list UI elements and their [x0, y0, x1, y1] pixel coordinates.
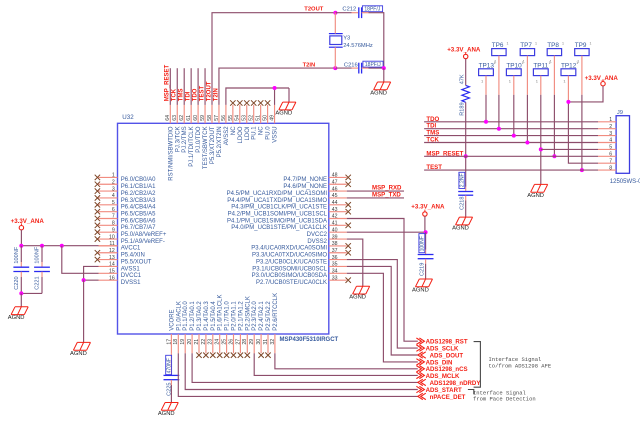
wire Y3 bottom stem — [334, 47, 336, 68]
pin 53 (LDOI) — [242, 100, 251, 140]
svg-text:52: 52 — [249, 115, 255, 121]
wire net TMS from pin 62 up — [183, 68, 185, 105]
svg-text:DVCC1: DVCC1 — [121, 273, 142, 279]
wire T2OUT junction to C212 left plate — [335, 12, 351, 14]
wire net TDO from pin 60 up — [197, 68, 199, 105]
svg-text:AGND: AGND — [452, 226, 469, 232]
svg-text:470NF: 470NF — [167, 358, 173, 373]
svg-text:55: 55 — [228, 115, 234, 121]
wire net ADS1298_nCS from pin 32 — [275, 353, 418, 369]
svg-text:36: 36 — [332, 255, 338, 261]
test point TP12 — [561, 61, 578, 83]
power +3.3V_ANA (TP12/J9) — [585, 75, 619, 86]
pin 46 (P4.5/PM_UCA1RXD/PM_UCA1SOMI) — [227, 186, 347, 197]
pin 52 (PU.1) — [249, 100, 258, 139]
svg-text:47K: 47K — [459, 74, 465, 84]
pin 9 (P5.0/A8/VeREF+) — [95, 227, 167, 238]
svg-text:P5.5/XOUT: P5.5/XOUT — [121, 259, 152, 265]
svg-text:T2IN: T2IN — [303, 62, 316, 68]
ground AGND (TP11 / J9 pin5) — [527, 184, 547, 198]
svg-text:12: 12 — [109, 248, 115, 254]
svg-text:1: 1 — [590, 42, 592, 46]
wire down to AGND — [83, 280, 85, 342]
svg-text:53: 53 — [242, 115, 248, 121]
test point TP9 — [575, 42, 592, 64]
svg-text:C218: C218 — [460, 197, 466, 210]
wire DVSS1 pin 16 left — [84, 279, 99, 281]
svg-text:64: 64 — [165, 115, 171, 121]
svg-text:TP6: TP6 — [492, 42, 504, 49]
pin 50 (PU.0) — [263, 100, 272, 139]
svg-text:P4.3/PM_UCB1CLK/PM_UCA1STE: P4.3/PM_UCB1CLK/PM_UCA1STE — [231, 205, 327, 211]
resistor R189 47K — [462, 85, 470, 102]
svg-text:47: 47 — [332, 179, 338, 185]
svg-text:100NF: 100NF — [35, 246, 41, 263]
svg-text:50: 50 — [263, 115, 269, 121]
pin 24 (P1.6/TA1CLK) — [215, 295, 224, 358]
pin 29 (P2.3/TA2.0) — [249, 301, 258, 354]
svg-text:P1.4/TA0.3: P1.4/TA0.3 — [204, 301, 210, 331]
value 2.2NF (boxed) — [459, 172, 466, 188]
svg-text:P4.2/PM_UCB1SOMI/PM_UCB1SCL: P4.2/PM_UCB1SOMI/PM_UCB1SCL — [228, 211, 328, 217]
net label ADS_START with off-page arrow — [416, 386, 462, 394]
junction VSSU / ground rail — [273, 86, 277, 90]
pin 18 (P1.0/ACLK) — [173, 301, 182, 353]
svg-text:16: 16 — [109, 275, 115, 281]
svg-text:17: 17 — [166, 339, 172, 345]
junction TMS/TP10 — [512, 134, 516, 138]
pin 39 (DVSS2) — [307, 234, 346, 245]
wire net TEST from pin 59 up — [204, 68, 206, 105]
svg-text:P6.2/CB2/A2: P6.2/CB2/A2 — [121, 191, 156, 197]
ground AGND (C219) — [412, 279, 432, 293]
svg-text:TP7: TP7 — [520, 42, 532, 49]
pin 21 (P1.3/TA0.2) — [194, 301, 203, 358]
svg-text:46: 46 — [332, 186, 338, 192]
svg-text:100NF: 100NF — [14, 246, 20, 263]
svg-text:P4.1/PM_UCB1SIMO/PM_UCB1SDA: P4.1/PM_UCB1SIMO/PM_UCB1SDA — [227, 218, 327, 224]
pin 47 (P4.6/PM_NONE) — [283, 179, 351, 190]
svg-text:58: 58 — [207, 115, 213, 121]
svg-text:7: 7 — [609, 158, 612, 164]
svg-text:TP10: TP10 — [506, 62, 522, 69]
junction rail / C221 — [40, 244, 44, 248]
svg-text:7: 7 — [112, 214, 115, 220]
wire net nPACE_DET from pin 18 — [178, 353, 417, 396]
value 18PF/J (boxed) — [363, 61, 383, 68]
wire VSSU pin 49 up to ground rail — [274, 88, 276, 105]
svg-text:LDOI: LDOI — [245, 126, 251, 140]
wire AVSS1 pin 14 left and down — [84, 266, 99, 280]
svg-text:P6.3/CB3/A3: P6.3/CB3/A3 — [121, 198, 156, 204]
wire net T2OUT: pin 58 up and right to crystal — [212, 13, 335, 105]
svg-text:3: 3 — [112, 186, 115, 192]
junction TP9 / TEST — [580, 168, 584, 172]
pin 55 (NC) — [228, 100, 237, 135]
wire TP6 to TDI — [498, 56, 500, 95]
svg-text:TP8: TP8 — [547, 42, 559, 49]
test point TP11 — [533, 61, 550, 83]
svg-text:1: 1 — [507, 42, 509, 46]
test point TP8 — [547, 42, 564, 64]
annotation bracket (pace detection) — [468, 390, 474, 395]
pin 5 (P6.4/CB4/A4) — [95, 200, 156, 211]
svg-text:C225: C225 — [166, 383, 172, 396]
svg-text:51: 51 — [256, 115, 262, 121]
pin 26 (P2.0/TA1.1) — [228, 301, 237, 358]
wire net TDO to J9 pin 1 — [424, 121, 598, 123]
pin 34 (P3.0/UCB0SIMO/UCB0SDA) — [252, 269, 347, 280]
svg-text:P2.6/RTCCLK: P2.6/RTCCLK — [273, 293, 279, 331]
capacitor C212 18PF/J — [359, 7, 362, 18]
svg-text:P6.7/CB7/A7: P6.7/CB7/A7 — [121, 225, 156, 231]
svg-text:2: 2 — [609, 124, 612, 130]
test point TP7 — [520, 42, 537, 64]
wire J9 pin5 row — [541, 148, 598, 150]
pin 38 (P3.4/UCA0RXD/UCA0SOMI) — [251, 241, 351, 252]
pin 7 (P6.6/CB6/A6) — [95, 214, 156, 225]
capacitor C216 18PF/J — [359, 63, 362, 74]
svg-text:+3.3V_ANA: +3.3V_ANA — [411, 204, 445, 211]
svg-text:P6.1/CB1/A1: P6.1/CB1/A1 — [121, 184, 156, 190]
svg-text:1: 1 — [549, 61, 551, 65]
svg-text:PU.0: PU.0 — [266, 126, 272, 140]
wire net MSP_RESET from pin 64 up — [169, 68, 171, 105]
J9 pin 4 — [598, 138, 616, 144]
svg-text:44: 44 — [332, 200, 338, 206]
svg-text:8: 8 — [112, 221, 115, 227]
svg-text:C212: C212 — [342, 6, 356, 12]
svg-text:P1.3/TA0.2: P1.3/TA0.2 — [197, 301, 203, 331]
ground AGND (AVSS1/DVSS1) — [70, 342, 90, 356]
svg-text:P2.3/TA2.0: P2.3/TA2.0 — [252, 301, 258, 331]
wire +3.3V to R189 — [465, 59, 467, 86]
svg-text:P3.0/UCB0SIMO/UCB0SDA: P3.0/UCB0SIMO/UCB0SDA — [252, 273, 327, 279]
pin 19 (P1.1/TA0.0) — [180, 301, 189, 354]
svg-text:P4.0/PM_UCB1STE/PM_UCA1CLK: P4.0/PM_UCB1STE/PM_UCA1CLK — [231, 225, 327, 231]
svg-text:AVCC1: AVCC1 — [121, 246, 141, 252]
net label ADS1298_RST with off-page arrow — [416, 338, 467, 346]
J9 pin 1 — [598, 117, 616, 123]
svg-text:32: 32 — [270, 339, 276, 345]
pin 17 (VCORE) — [166, 309, 175, 353]
svg-text:28: 28 — [242, 339, 248, 345]
svg-text:J9: J9 — [617, 110, 623, 116]
svg-text:1: 1 — [509, 79, 512, 84]
svg-text:P6.0/CB0/A0: P6.0/CB0/A0 — [121, 177, 156, 183]
svg-text:21: 21 — [194, 339, 200, 345]
svg-text:P4.4/PM_UCA1TXD/PM_UCA1SIMO: P4.4/PM_UCA1TXD/PM_UCA1SIMO — [227, 198, 327, 204]
svg-text:P1.5/TA0.4: P1.5/TA0.4 — [211, 301, 217, 331]
svg-text:8: 8 — [609, 165, 612, 171]
svg-text:P3.4/UCA0RXD/UCA0SOMI: P3.4/UCA0RXD/UCA0SOMI — [251, 246, 327, 252]
pin 54 (LDOO) — [235, 100, 244, 143]
svg-text:PU.1: PU.1 — [252, 126, 258, 140]
svg-text:P3.3/UCA0TXD/UCA0SIMO: P3.3/UCA0TXD/UCA0SIMO — [252, 253, 327, 259]
note: Interface Signal from Pace Detection — [473, 390, 536, 403]
wire TP12 to +3.3V and J9 pin 7 — [567, 76, 569, 102]
svg-text:P5.3/XT2OUT: P5.3/XT2OUT — [210, 126, 216, 164]
svg-text:AGND: AGND — [70, 351, 87, 357]
ground AGND (AVSS2/VSSU) — [275, 102, 295, 116]
wire net ADS_DOUT from pin 35 — [347, 266, 418, 355]
junction TP11 / J9 pin5 row — [539, 147, 543, 151]
svg-text:29: 29 — [249, 339, 255, 345]
capacitor C218 2.2NF — [458, 156, 473, 217]
pin 25 (P1.7/TA1.0) — [222, 301, 231, 358]
test point TP10 — [506, 61, 523, 83]
wire DVSS2 pin 39 to ground — [347, 239, 363, 286]
svg-text:5: 5 — [112, 200, 115, 206]
J9 pin 8 — [598, 165, 616, 171]
net label ADS1298_nCS with off-page arrow — [416, 366, 467, 374]
junction AVSS1/DVSS1 — [82, 278, 86, 282]
wire TP10 to TMS — [513, 76, 515, 95]
svg-text:P1.0/ACLK: P1.0/ACLK — [176, 301, 182, 331]
pin 11 (AVCC1) — [98, 241, 141, 252]
svg-text:9: 9 — [112, 227, 115, 233]
pin 16 (DVSS1) — [98, 275, 141, 286]
pin 31 (P2.5/TA2.2) — [263, 301, 272, 358]
J9 pin 3 — [598, 131, 616, 137]
svg-text:MSP_TXD: MSP_TXD — [372, 192, 401, 199]
svg-text:P2.1/TA1.2: P2.1/TA1.2 — [238, 301, 244, 331]
svg-text:+3.3V_ANA: +3.3V_ANA — [585, 75, 619, 82]
svg-text:P6.4/CB4/A4: P6.4/CB4/A4 — [121, 205, 156, 211]
pin 36 (P3.2/UCB0CLK/UCA0STE) — [256, 255, 347, 266]
wire DVCC1 branch to pin 15 — [62, 246, 99, 274]
junction DVCC2 / +3.3V / C219 — [424, 230, 428, 234]
value 470NF (boxed) — [166, 355, 173, 374]
junction T2OUT / Y3 top / C212 — [333, 11, 337, 15]
svg-text:DVCC2: DVCC2 — [307, 232, 328, 238]
wire net MSP_TXD from pin 45 — [347, 197, 404, 199]
svg-text:C216: C216 — [344, 63, 358, 69]
svg-text:+3.3V_ANA: +3.3V_ANA — [11, 218, 45, 225]
wire net ADS_START from pin 19 — [185, 353, 418, 389]
svg-text:P2.4/TA2.1: P2.4/TA2.1 — [259, 301, 265, 331]
pin 61 (PJ.1/TDI/TCLK) — [186, 105, 195, 167]
svg-text:to/from ADS1298 AFE: to/from ADS1298 AFE — [489, 363, 552, 370]
wire net ADS1298_nDRDY from pin 20 — [192, 353, 418, 382]
svg-text:15: 15 — [109, 269, 115, 275]
wire net ADS1298_RST from pin 42 — [347, 219, 418, 342]
svg-text:1: 1 — [536, 79, 539, 84]
svg-text:1: 1 — [535, 42, 537, 46]
wire TP8 to MSP_RESET — [553, 56, 555, 95]
svg-text:TEST: TEST — [426, 164, 442, 171]
svg-text:DVSS2: DVSS2 — [307, 239, 327, 245]
svg-text:12505WS-08: 12505WS-08 — [610, 179, 640, 185]
wire ground rail down to AGND — [288, 88, 290, 102]
svg-text:10: 10 — [109, 234, 115, 240]
pin 51 (NC) — [256, 100, 265, 135]
pin 22 (P1.4/TA0.3) — [201, 301, 210, 358]
pin 41 (P4.0/PM_UCB1STE/PM_UCA1CLK) — [231, 221, 351, 232]
pin 10 (P5.1/A9/VeREF-) — [95, 234, 165, 245]
svg-text:35: 35 — [332, 262, 338, 268]
svg-text:27: 27 — [235, 339, 241, 345]
svg-text:62: 62 — [179, 115, 185, 121]
svg-text:6: 6 — [112, 207, 115, 213]
pin 15 (DVCC1) — [98, 269, 141, 280]
power +3.3V_ANA (DVCC2) — [411, 204, 445, 217]
svg-text:1: 1 — [609, 117, 612, 123]
svg-text:PJ.3/TCK: PJ.3/TCK — [175, 126, 181, 152]
pin 40 (DVCC2) — [307, 227, 347, 238]
svg-text:P5.1/A9/VeREF-: P5.1/A9/VeREF- — [121, 239, 165, 245]
svg-text:LDOO: LDOO — [238, 126, 244, 143]
svg-text:TCK: TCK — [426, 137, 439, 144]
junction T2IN / Y3 bottom / C216 — [333, 66, 337, 70]
wire TP9 to TEST — [581, 56, 583, 95]
wire TP13 to TDO — [485, 76, 487, 95]
svg-text:34: 34 — [332, 269, 338, 275]
net label ADS_SCLK with off-page arrow — [416, 345, 459, 353]
svg-text:P2.5/TA2.2: P2.5/TA2.2 — [266, 301, 272, 331]
svg-text:1: 1 — [576, 61, 578, 65]
junction right rail / C216 — [382, 66, 386, 70]
svg-text:MSP_RESET: MSP_RESET — [426, 150, 463, 157]
value 18PF/J (boxed) — [362, 6, 382, 13]
svg-text:40: 40 — [332, 227, 338, 233]
power +3.3V_ANA (R189) — [447, 47, 481, 59]
svg-text:2.2NF: 2.2NF — [460, 173, 466, 187]
pin 1 (P6.0/CB0/A0) — [95, 173, 156, 184]
capacitor C220 100NF — [13, 246, 29, 294]
note: Interface Signal to/from ADS1298 AFE — [489, 356, 552, 370]
svg-text:P6.5/CB5/A5: P6.5/CB5/A5 — [121, 211, 156, 217]
svg-text:P5.4/XIN: P5.4/XIN — [121, 253, 145, 259]
capacitor C219 100NF — [418, 232, 434, 279]
junction R189 / MSP_RESET / C218 — [464, 154, 468, 158]
wire net MSP_RXD from pin 46 — [347, 190, 404, 192]
svg-text:TP11: TP11 — [533, 62, 548, 69]
svg-text:AVSS1: AVSS1 — [121, 266, 141, 272]
svg-text:RST/NMI/SBWTDIO: RST/NMI/SBWTDIO — [168, 126, 174, 181]
svg-text:Y3: Y3 — [343, 35, 350, 41]
junction rail / C220 — [19, 244, 23, 248]
pin 57 (P5.2/XT2IN) — [214, 105, 223, 158]
svg-text:P6.6/CB6/A6: P6.6/CB6/A6 — [121, 218, 156, 224]
pin 27 (P2.1/TA1.2) — [235, 301, 244, 358]
net label nPACE_DET with off-page arrow — [418, 393, 466, 401]
J9 pin 5 — [598, 145, 616, 151]
ground AGND (C218) — [452, 217, 472, 231]
wire AVSS2 pin 56 up to ground rail — [226, 88, 289, 105]
svg-text:4: 4 — [112, 193, 115, 199]
svg-text:ADS_MCLK: ADS_MCLK — [426, 373, 460, 380]
svg-text:22: 22 — [201, 339, 207, 345]
pin 32 (P2.6/RTCCLK) — [270, 293, 279, 353]
pin 56 (AVSS2) — [221, 105, 230, 145]
svg-text:60: 60 — [193, 115, 199, 121]
pin 23 (P1.5/TA0.4) — [208, 301, 217, 358]
pin 60 (PJ.0/TDO) — [193, 105, 202, 153]
svg-text:31: 31 — [263, 339, 269, 345]
svg-text:6: 6 — [609, 152, 612, 158]
pin 37 (P3.3/UCA0TXD/UCA0SIMO) — [252, 248, 351, 259]
svg-text:P5.2/XT2IN: P5.2/XT2IN — [217, 126, 223, 157]
svg-text:P2.0/TA1.1: P2.0/TA1.1 — [232, 301, 238, 331]
svg-text:P5.0/A8/VeREF+: P5.0/A8/VeREF+ — [121, 232, 167, 238]
svg-text:25: 25 — [222, 339, 228, 345]
svg-text:59: 59 — [200, 115, 206, 121]
junction TP8 / MSP_RESET — [552, 154, 556, 158]
svg-text:57: 57 — [214, 115, 220, 121]
svg-text:18: 18 — [173, 339, 179, 345]
svg-text:ADS1298_nDRDY: ADS1298_nDRDY — [430, 380, 481, 387]
ground AGND (crystal caps) — [370, 82, 390, 96]
net label ADS_DOUT with off-page arrow — [418, 352, 464, 360]
wire +3.3V_ANA stem to DVCC2 rail — [424, 216, 426, 232]
wire net TDI to J9 pin 2 — [424, 128, 598, 130]
wire +3.3V to TP12 net — [568, 86, 603, 102]
pin 49 (VSSU) — [269, 105, 278, 143]
ground AGND (C225) — [158, 403, 178, 417]
IC U32 MSP430F5310IRGCT microcontroller body — [118, 123, 329, 334]
pin 6 (P6.5/CB5/A5) — [95, 207, 156, 218]
svg-text:TEST/SBWTCK: TEST/SBWTCK — [203, 126, 209, 169]
svg-text:P1.7/TA1.0: P1.7/TA1.0 — [225, 301, 231, 331]
svg-text:38: 38 — [332, 241, 338, 247]
wire down to AGND — [20, 293, 22, 306]
pin 33 (P2.7/UCB0STE/UCA0CLK) — [256, 275, 351, 286]
wire net MSP_RESET to J9 pin 6 — [424, 155, 598, 157]
capacitor C221 100NF — [34, 246, 50, 294]
svg-text:2: 2 — [112, 179, 115, 185]
pin 13 (P5.5/XOUT) — [95, 255, 152, 266]
ground AGND (DVSS2) — [349, 286, 369, 300]
svg-text:TP12: TP12 — [561, 62, 577, 69]
ground AGND (C220/C221) — [8, 307, 28, 321]
svg-text:39: 39 — [332, 234, 338, 240]
wire net TCK to J9 pin 4 — [424, 142, 598, 144]
svg-text:P1.1/TA0.0: P1.1/TA0.0 — [183, 301, 189, 331]
pin 20 (P1.2/TA0.1) — [187, 301, 196, 354]
wire net TEST to J9 pin 8 — [424, 169, 598, 171]
svg-text:PJ.0/TDO: PJ.0/TDO — [196, 126, 202, 153]
annotation bracket (ADS1298 AFE signals) — [474, 342, 481, 388]
svg-text:AGND: AGND — [158, 411, 175, 417]
pin 62 (PJ.2/TMS) — [179, 105, 188, 153]
svg-text:13: 13 — [109, 255, 115, 261]
svg-text:5: 5 — [609, 145, 612, 151]
svg-text:U32: U32 — [122, 114, 134, 121]
svg-text:PJ.1/TDI/TCLK: PJ.1/TDI/TCLK — [189, 126, 195, 166]
wire C216 right plate to right rail — [362, 67, 369, 69]
svg-text:1: 1 — [481, 79, 484, 84]
svg-text:PJ.2/TMS: PJ.2/TMS — [182, 126, 188, 152]
junction rail / DVCC1 branch — [60, 244, 64, 248]
svg-text:P2.2/SMCLK: P2.2/SMCLK — [245, 296, 251, 331]
svg-text:C220: C220 — [14, 276, 20, 289]
svg-text:C221: C221 — [35, 276, 41, 289]
svg-text:1: 1 — [563, 79, 566, 84]
svg-text:63: 63 — [172, 115, 178, 121]
pin 8 (P6.7/CB7/A7) — [95, 221, 156, 232]
pin 4 (P6.3/CB3/A3) — [95, 193, 156, 204]
pin 58 (P5.3/XT2OUT) — [207, 105, 216, 164]
svg-text:30: 30 — [256, 339, 262, 345]
wire TP7 to TCK — [526, 56, 528, 95]
svg-text:P4.6/PM_NONE: P4.6/PM_NONE — [283, 184, 327, 190]
svg-text:P4.5/PM_UCA1RXD/PM_UCA1SOMI: P4.5/PM_UCA1RXD/PM_UCA1SOMI — [227, 191, 328, 197]
wire net T2IN: pin 57 up and right to crystal bottom — [219, 68, 335, 105]
pin 63 (PJ.3/TCK) — [172, 105, 181, 152]
svg-text:1: 1 — [112, 173, 115, 179]
svg-text:100NF: 100NF — [420, 236, 426, 251]
